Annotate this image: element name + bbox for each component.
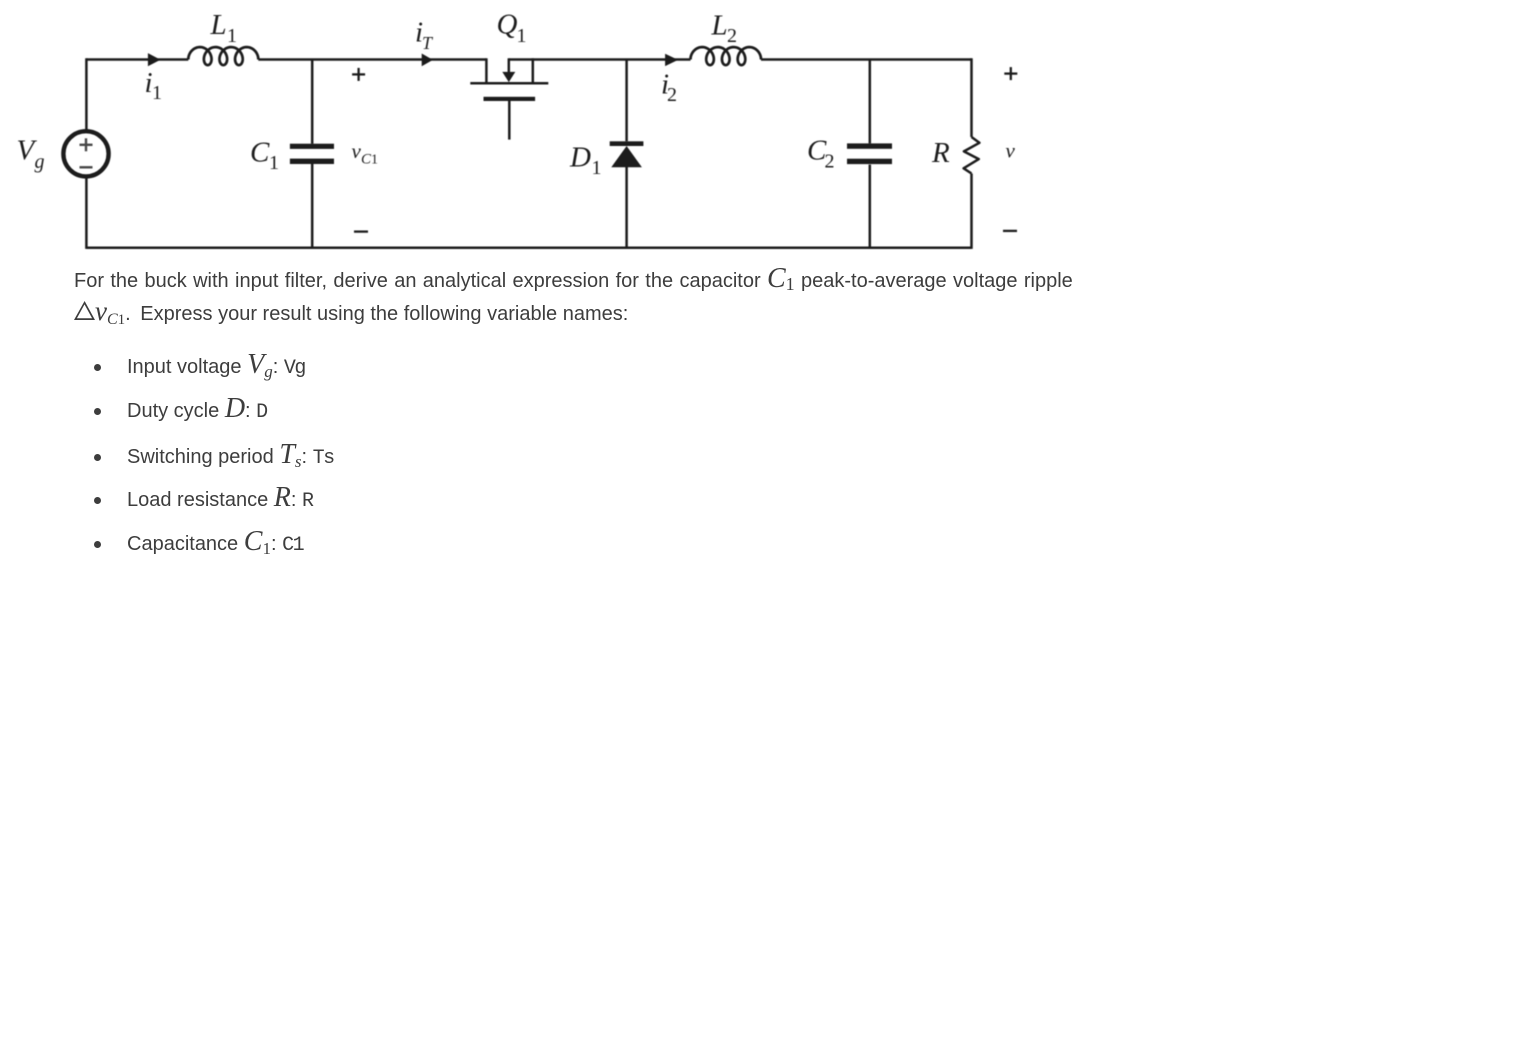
svg-text:L: L bbox=[711, 10, 728, 42]
svg-text:1: 1 bbox=[152, 82, 162, 104]
svg-text:1: 1 bbox=[592, 157, 602, 179]
svg-text:R: R bbox=[931, 137, 950, 169]
svg-text:1: 1 bbox=[269, 152, 279, 174]
svg-text:C: C bbox=[250, 136, 270, 168]
svg-text:v: v bbox=[352, 139, 362, 163]
svg-text:1: 1 bbox=[227, 25, 237, 47]
svg-text:1: 1 bbox=[517, 25, 527, 47]
svg-text:v: v bbox=[1006, 139, 1016, 163]
svg-text:2: 2 bbox=[727, 25, 737, 47]
svg-text:D: D bbox=[569, 142, 591, 174]
svg-text:L: L bbox=[210, 9, 227, 41]
svg-text:Q: Q bbox=[497, 9, 518, 41]
svg-text:g: g bbox=[35, 151, 45, 173]
svg-text:2: 2 bbox=[825, 150, 835, 172]
svg-text:T: T bbox=[422, 33, 434, 53]
svg-text:1: 1 bbox=[371, 153, 378, 168]
svg-text:2: 2 bbox=[667, 84, 677, 106]
